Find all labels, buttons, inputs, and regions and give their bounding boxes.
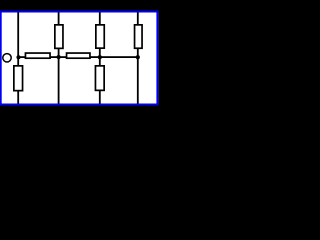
resistor R5 (series, middle row left)	[25, 53, 50, 58]
resistor R3 (top, column 3)	[96, 25, 104, 48]
sheet border frame (blue)	[0, 11, 158, 106]
resistor R4 (top, column 4)	[135, 25, 143, 48]
black background	[0, 0, 178, 118]
wire: column 2 vertical	[58, 13, 60, 104]
wire: column 1 vertical (top border to bottom border)	[17, 13, 19, 104]
schematic sheet (white canvas)	[0, 11, 158, 106]
terminal circle (open port, left)	[3, 54, 11, 62]
resistor R7 (bottom, column 3)	[95, 66, 104, 91]
wire: column 3 vertical	[99, 13, 101, 104]
resistor R6 (series, middle row right)	[67, 53, 90, 58]
junction node C (col 3 / bus)	[98, 55, 102, 59]
junction node D (col 4 / bus)	[136, 55, 140, 59]
junction node B (col 2 / bus)	[57, 55, 61, 59]
resistor R1 (bottom, column 1)	[14, 66, 23, 91]
resistor R2 (top, column 2)	[55, 25, 63, 48]
wire: middle horizontal bus	[17, 56, 138, 58]
junction node A (col 1 / bus)	[16, 55, 20, 59]
wire: column 4 vertical	[137, 13, 139, 104]
